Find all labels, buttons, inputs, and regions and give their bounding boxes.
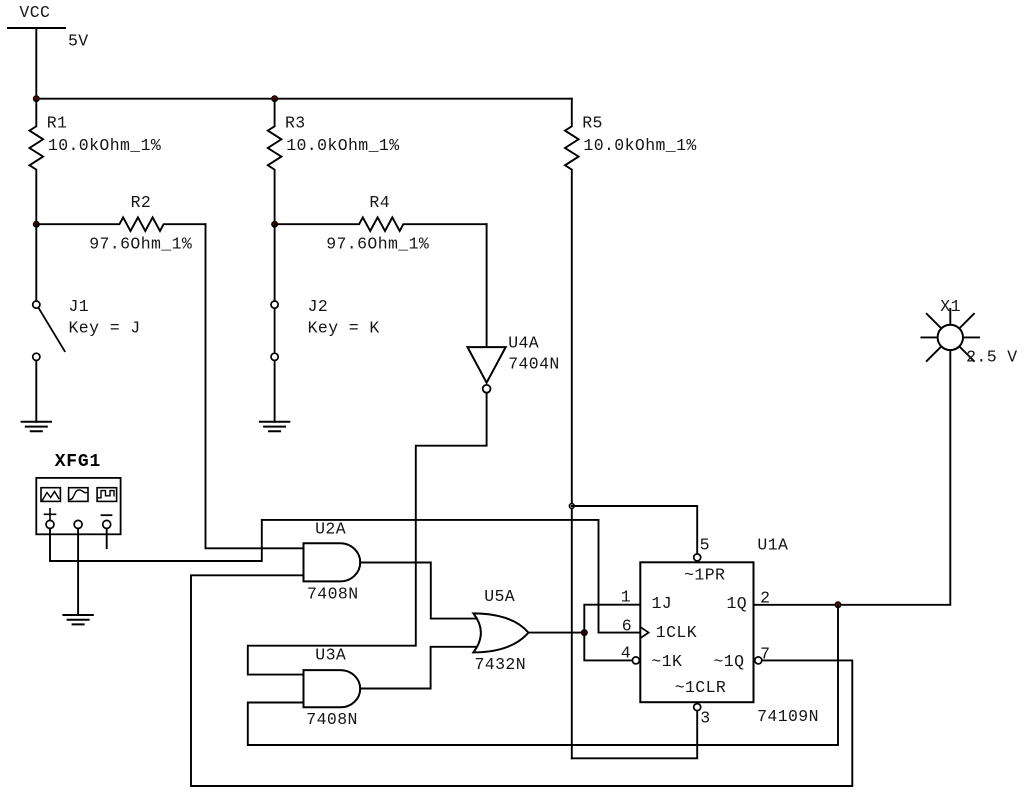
svg-text:U3A: U3A [315, 646, 346, 665]
bubble pin 7 ~1Q [755, 657, 762, 664]
wire ~1Q feedback to U2A input 2 [191, 575, 852, 786]
wire top VCC rail [36, 98, 572, 100]
svg-text:10.0kOhm_1%: 10.0kOhm_1% [286, 136, 399, 155]
wire tie 1J / ~1K [584, 605, 640, 661]
svg-text:7408N: 7408N [306, 710, 358, 729]
svg-text:~1PR: ~1PR [684, 566, 725, 585]
ground (J1) [22, 422, 51, 431]
svg-text:6: 6 [622, 616, 632, 635]
wire U4A output to U3A input 1 [248, 394, 487, 675]
svg-text:10.0kOhm_1%: 10.0kOhm_1% [583, 136, 696, 155]
bubble pin 5 ~1PR [694, 554, 701, 561]
svg-text:Key = J: Key = J [69, 319, 141, 338]
svg-text:74109N: 74109N [757, 707, 819, 726]
svg-text:7408N: 7408N [307, 584, 359, 603]
OR gate U5A [473, 613, 528, 652]
svg-text:97.6Ohm_1%: 97.6Ohm_1% [89, 235, 192, 254]
svg-text:R5: R5 [582, 114, 603, 133]
svg-text:1CLK: 1CLK [656, 623, 697, 642]
svg-text:1J: 1J [652, 594, 673, 613]
wire U3A output to U5A input 2 [360, 647, 478, 689]
wire XFG1 minus stub [106, 529, 108, 548]
resistor R4 [275, 217, 487, 231]
svg-text:5: 5 [700, 535, 710, 554]
svg-text:R1: R1 [47, 114, 68, 133]
svg-text:J2: J2 [308, 297, 329, 316]
node connector on R5 net [569, 504, 574, 509]
svg-text:R2: R2 [131, 193, 152, 212]
wire XFG1 + output to 1CLK [50, 520, 640, 633]
svg-text:U1A: U1A [757, 536, 788, 555]
svg-text:U4A: U4A [508, 334, 539, 353]
AND gate U3A [304, 670, 361, 707]
bubble pin 4 ~1K [632, 657, 639, 664]
svg-text:1Q: 1Q [727, 594, 748, 613]
power VCC symbol [8, 28, 65, 99]
svg-text:2.5 V: 2.5 V [966, 348, 1018, 367]
ground (XFG1) [63, 615, 92, 624]
junction R3/R4 [272, 222, 277, 227]
bubble pin 3 ~1CLR [694, 704, 701, 711]
svg-text:U5A: U5A [484, 587, 515, 606]
svg-text:~1CLR: ~1CLR [675, 678, 727, 697]
wire 1Q feedback to U3A input 2 [248, 605, 838, 745]
svg-text:~1Q: ~1Q [714, 652, 745, 671]
junction at R3 top [272, 96, 277, 101]
svg-text:7432N: 7432N [475, 655, 527, 674]
svg-text:X1: X1 [940, 297, 961, 316]
wire 1Q output to lamp X1 [754, 351, 951, 605]
resistor R2 [36, 217, 205, 231]
resistor R1 [30, 99, 44, 225]
svg-text:~1K: ~1K [651, 652, 682, 671]
svg-text:10.0kOhm_1%: 10.0kOhm_1% [48, 136, 161, 155]
wire R4 to U4A input [486, 224, 488, 347]
junction U5A output [582, 630, 587, 635]
clock triangle [640, 627, 648, 638]
switch J2 [271, 224, 278, 360]
svg-text:1: 1 [621, 588, 631, 607]
svg-text:VCC: VCC [19, 3, 50, 22]
junction at R1 top [34, 96, 39, 101]
junction 1Q branch [835, 602, 840, 607]
junction R1/R2 [34, 222, 39, 227]
wire U5A output to J/K tie [528, 632, 584, 634]
svg-text:4: 4 [621, 643, 631, 662]
wire J1 to ground [35, 361, 37, 422]
svg-text:J1: J1 [69, 297, 90, 316]
svg-text:Key = K: Key = K [308, 319, 380, 338]
wire R2 to U2A input 1 [206, 224, 304, 548]
ground (J2) [260, 422, 289, 431]
svg-text:R3: R3 [285, 114, 306, 133]
svg-text:5V: 5V [68, 31, 89, 50]
AND gate U2A [304, 543, 361, 581]
wire R5 net to ~1PR pin 5 [572, 506, 697, 553]
wire J2 to ground [274, 361, 276, 422]
resistor R3 [268, 99, 282, 225]
resistor R5 [565, 99, 579, 759]
inverter U4A [468, 347, 506, 393]
instrument XFG1 [36, 478, 120, 534]
wire CLR rail to pin 3 [572, 712, 697, 759]
lamp X1 [921, 309, 979, 361]
svg-text:R4: R4 [369, 193, 390, 212]
switch J1 [33, 224, 65, 360]
svg-text:7404N: 7404N [508, 355, 560, 374]
svg-text:U2A: U2A [315, 519, 346, 538]
svg-text:3: 3 [700, 709, 710, 728]
flip-flop U1A 74109N [640, 562, 753, 702]
wire XFG1 common to ground [77, 529, 79, 615]
wire U2A output to U5A input 1 [360, 563, 478, 619]
svg-text:XFG1: XFG1 [55, 452, 101, 472]
svg-text:97.6Ohm_1%: 97.6Ohm_1% [326, 235, 429, 254]
